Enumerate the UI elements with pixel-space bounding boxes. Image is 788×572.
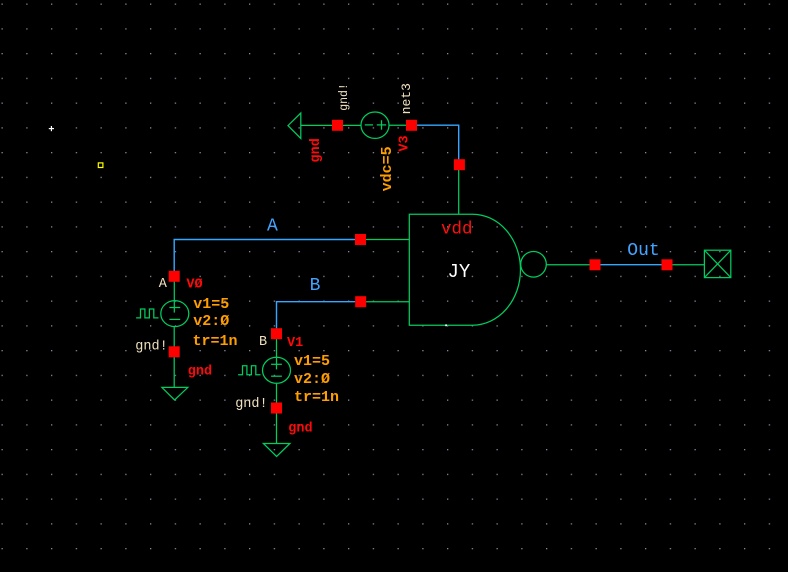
svg-text:gnd: gnd [288,422,312,437]
svg-text:vdc=5: vdc=5 [379,146,396,191]
svg-text:V1: V1 [287,336,303,351]
svg-text:gnd!: gnd! [235,397,267,412]
svg-text:v1=5: v1=5 [193,296,229,313]
svg-text:B: B [310,276,321,296]
svg-text:v1=5: v1=5 [294,353,330,370]
svg-text:v2:Ø: v2:Ø [193,313,229,330]
svg-text:gnd: gnd [188,365,212,380]
svg-text:B: B [259,335,267,350]
svg-text:tr=1n: tr=1n [294,389,339,406]
svg-text:net3: net3 [399,83,414,114]
svg-text:VØ: VØ [186,278,202,293]
svg-text:gnd: gnd [309,138,324,162]
svg-text:V3: V3 [398,135,413,151]
svg-text:tr=1n: tr=1n [193,333,238,350]
svg-text:vdd: vdd [441,219,473,239]
svg-text:A: A [267,217,278,237]
svg-text:v2:Ø: v2:Ø [294,371,330,388]
svg-text:JY: JY [448,261,471,283]
svg-text:gnd!: gnd! [338,83,351,111]
svg-text:A: A [159,277,168,292]
svg-text:Out: Out [627,241,659,261]
svg-text:gnd!: gnd! [135,340,167,355]
